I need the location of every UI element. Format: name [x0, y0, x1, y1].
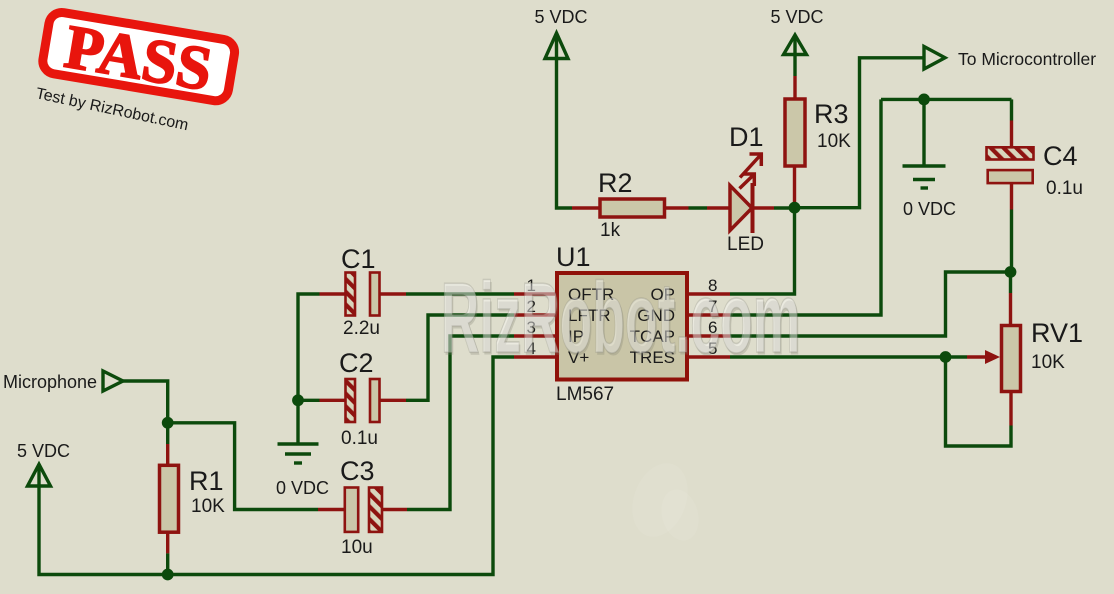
- emission arrows: [740, 154, 762, 189]
- svg-text:C1: C1: [341, 244, 376, 274]
- wire pin6 riser: [730, 272, 1011, 336]
- wire C3 to pin3: [407, 336, 514, 510]
- svg-text:5 VDC: 5 VDC: [17, 441, 70, 461]
- svg-text:10K: 10K: [817, 131, 851, 152]
- stamp PASS: [40, 9, 237, 107]
- svg-text:D1: D1: [729, 122, 764, 152]
- wiper arrow: [967, 355, 993, 358]
- pin 6 stub: [687, 334, 730, 337]
- junction C4/RV1/pin6: [1005, 266, 1017, 278]
- wire junction to C3: [168, 423, 318, 510]
- wire R2 to D1: [689, 206, 708, 209]
- wire pin7 riser: [730, 99, 881, 315]
- ground symbol 0 VDC (top-right): [903, 99, 946, 188]
- capacitor C4: [987, 99, 1034, 272]
- svg-text:LM567: LM567: [556, 384, 614, 405]
- wire C1 left down to junction: [298, 294, 320, 400]
- ground symbol 0 VDC (mid-left): [278, 400, 319, 463]
- pin 4 stub: [514, 355, 557, 358]
- wire C2 left to junction: [298, 399, 320, 402]
- junction wiper/bottom loop: [940, 351, 952, 363]
- svg-text:5 VDC: 5 VDC: [770, 7, 823, 27]
- resistor R2: [572, 199, 689, 217]
- resistor R3: [785, 76, 805, 208]
- ghost mark: [623, 455, 705, 544]
- svg-text:10u: 10u: [341, 537, 373, 558]
- svg-text:0.1u: 0.1u: [341, 428, 378, 449]
- svg-text:RV1: RV1: [1031, 318, 1083, 348]
- svg-text:Microphone: Microphone: [3, 372, 97, 392]
- wire C2 to pin2: [406, 315, 514, 400]
- junction ground rail: [918, 94, 930, 106]
- svg-text:R1: R1: [189, 466, 224, 496]
- watermark RizRobot.com: [441, 261, 802, 376]
- capacitor C2: [320, 379, 407, 422]
- terminal Microphone: [103, 371, 123, 391]
- power +5V terminal above R3: [784, 35, 807, 76]
- svg-text:1k: 1k: [600, 220, 621, 241]
- svg-text:10K: 10K: [191, 496, 225, 517]
- pin 8 stub: [687, 292, 730, 295]
- wire pin8 riser: [730, 208, 795, 294]
- svg-text:RizRobot.com: RizRobot.com: [441, 261, 801, 373]
- svg-text:0 VDC: 0 VDC: [903, 199, 956, 219]
- pin 1 stub: [514, 292, 557, 295]
- potentiometer RV1: [967, 272, 1021, 426]
- pin 7 stub: [687, 313, 730, 316]
- junction R1 bottom rail: [162, 569, 174, 581]
- capacitor C3: [318, 488, 407, 532]
- pin 2 stub: [514, 313, 557, 316]
- wire bottom rail to pin4: [39, 357, 514, 575]
- pin 3 stub: [514, 334, 557, 337]
- svg-text:C2: C2: [339, 348, 374, 378]
- terminal arrow To Microcontroller: [924, 47, 945, 70]
- svg-text:To Microcontroller: To Microcontroller: [958, 49, 1096, 69]
- svg-text:10K: 10K: [1031, 352, 1065, 373]
- power +5V terminal P1: [545, 33, 568, 59]
- svg-text:R2: R2: [598, 168, 633, 198]
- junction C1/C2/ground: [292, 394, 304, 406]
- wire: 5VDC top-left stem to R2: [557, 33, 573, 208]
- resistor R1: [160, 423, 179, 575]
- svg-text:R3: R3: [814, 99, 849, 129]
- junction LED/R3/pin8: [789, 202, 801, 214]
- wire pin5 to RV1 wiper: [730, 355, 967, 358]
- svg-text:0.1u: 0.1u: [1046, 178, 1083, 199]
- LED D1: [707, 154, 774, 233]
- capacitor C1: [320, 273, 407, 316]
- wire mic to R1 junction: [123, 381, 168, 423]
- svg-text:0 VDC: 0 VDC: [276, 478, 329, 498]
- wire RV1 bottom loop: [946, 357, 1012, 446]
- junction mic/R1/C3: [162, 417, 174, 429]
- svg-text:C3: C3: [340, 456, 375, 486]
- IC U1 LM567: [557, 273, 687, 380]
- pin 5 stub: [687, 355, 730, 358]
- power +5V terminal bottom-left: [28, 464, 51, 486]
- svg-text:2.2u: 2.2u: [343, 318, 380, 339]
- wire D1 to junction: [774, 206, 795, 209]
- ground rail top-right: [881, 98, 1012, 101]
- svg-text:LED: LED: [727, 234, 764, 255]
- svg-text:5 VDC: 5 VDC: [534, 7, 587, 27]
- wire junction to microcontroller riser: [795, 58, 925, 208]
- wire C1 to pin1: [406, 292, 514, 295]
- svg-text:C4: C4: [1043, 141, 1078, 171]
